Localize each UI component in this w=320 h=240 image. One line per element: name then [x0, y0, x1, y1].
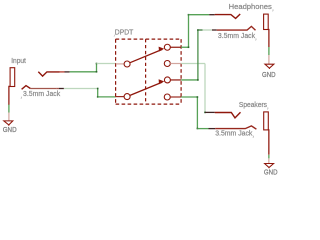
- switch S1 DPDT dashed outline: [116, 38, 182, 40]
- wire input ring to pole2: segment A: [59, 88, 64, 90]
- ground symbol (input): [4, 121, 13, 125]
- svg-text:Speakers: Speakers: [239, 102, 268, 109]
- svg-text:3.5mm Jack: 3.5mm Jack: [215, 130, 253, 137]
- svg-text:3.5mm Jack: 3.5mm Jack: [218, 33, 256, 40]
- wire throw1b to speakers tip: [181, 63, 205, 65]
- jack J1 sleeve pin: [9, 86, 10, 105]
- switch S1 pole2 common pin stub: [116, 96, 125, 98]
- ground pin (headphones): [268, 55, 270, 64]
- svg-text:GND: GND: [262, 72, 276, 79]
- wire input sleeve to ground: [8, 105, 10, 113]
- jack J2 Headphones tip contact: [215, 14, 241, 18]
- jack J2 sleeve pin: [267, 30, 270, 48]
- wire throw1a to headphones tip: [181, 46, 188, 48]
- wire input tip to pole1: riser: [96, 64, 98, 72]
- switch S1 throw1b pin stub: [170, 63, 181, 65]
- wire throw2a to headphones ring: [181, 79, 198, 81]
- wire input ring to pole2: dropper: [97, 89, 99, 97]
- jack J1 ring contact: [22, 86, 31, 90]
- switch S1 throw2a pin stub: [170, 79, 181, 81]
- jack J3 Speakers tip contact: [215, 112, 241, 118]
- wire throw2b to speakers ring: [181, 96, 197, 98]
- ground symbol (headphones): [265, 64, 274, 68]
- wire input tip to pole1: segment B: [97, 63, 116, 65]
- switch S1 pole2 lever: [130, 82, 162, 95]
- switch S1 pole divider: [145, 39, 147, 104]
- switch S1 throw2b terminal: [164, 94, 170, 100]
- switch S1 pole1 common terminal: [124, 61, 130, 67]
- switch S1 throw1a pin stub: [170, 46, 181, 48]
- switch S1 pole1 common pin stub: [116, 63, 125, 65]
- jack J3 Speakers ring contact: [215, 126, 256, 129]
- wire headphones sleeve to ground: [268, 47, 270, 55]
- switch S1 throw1a terminal: [164, 44, 170, 50]
- svg-text:Headphones: Headphones: [229, 4, 273, 11]
- ground symbol (speakers): [265, 164, 274, 168]
- switch S1 pole2 common terminal: [124, 94, 130, 100]
- jack J3 sleeve pin: [267, 130, 270, 155]
- svg-text:DPDT: DPDT: [115, 29, 134, 36]
- ground pin (input): [8, 113, 10, 121]
- switch S1 pole1 lever: [130, 49, 162, 62]
- jack J2 Headphones sleeve body: [264, 14, 269, 29]
- jack J3 Speakers sleeve body: [264, 112, 269, 130]
- wire input tip to pole1: segment A: [65, 71, 70, 73]
- wire input ring to pole2: segment B: [98, 96, 116, 98]
- wire speakers sleeve to ground: [268, 155, 270, 159]
- svg-text:GND: GND: [3, 127, 17, 134]
- switch S1 throw2a terminal: [164, 77, 170, 83]
- jack J1 tip contact: [38, 72, 59, 76]
- svg-text:GND: GND: [264, 169, 278, 176]
- switch S1 throw2b pin stub: [170, 96, 181, 98]
- svg-text:Input: Input: [11, 58, 26, 65]
- jack J2 Headphones ring contact: [217, 26, 256, 30]
- switch S1 throw1b terminal: [164, 61, 170, 67]
- svg-text:3.5mm Jack: 3.5mm Jack: [23, 91, 61, 98]
- ground pin (speakers): [268, 158, 270, 163]
- jack J1 Input sleeve body: [10, 68, 15, 87]
